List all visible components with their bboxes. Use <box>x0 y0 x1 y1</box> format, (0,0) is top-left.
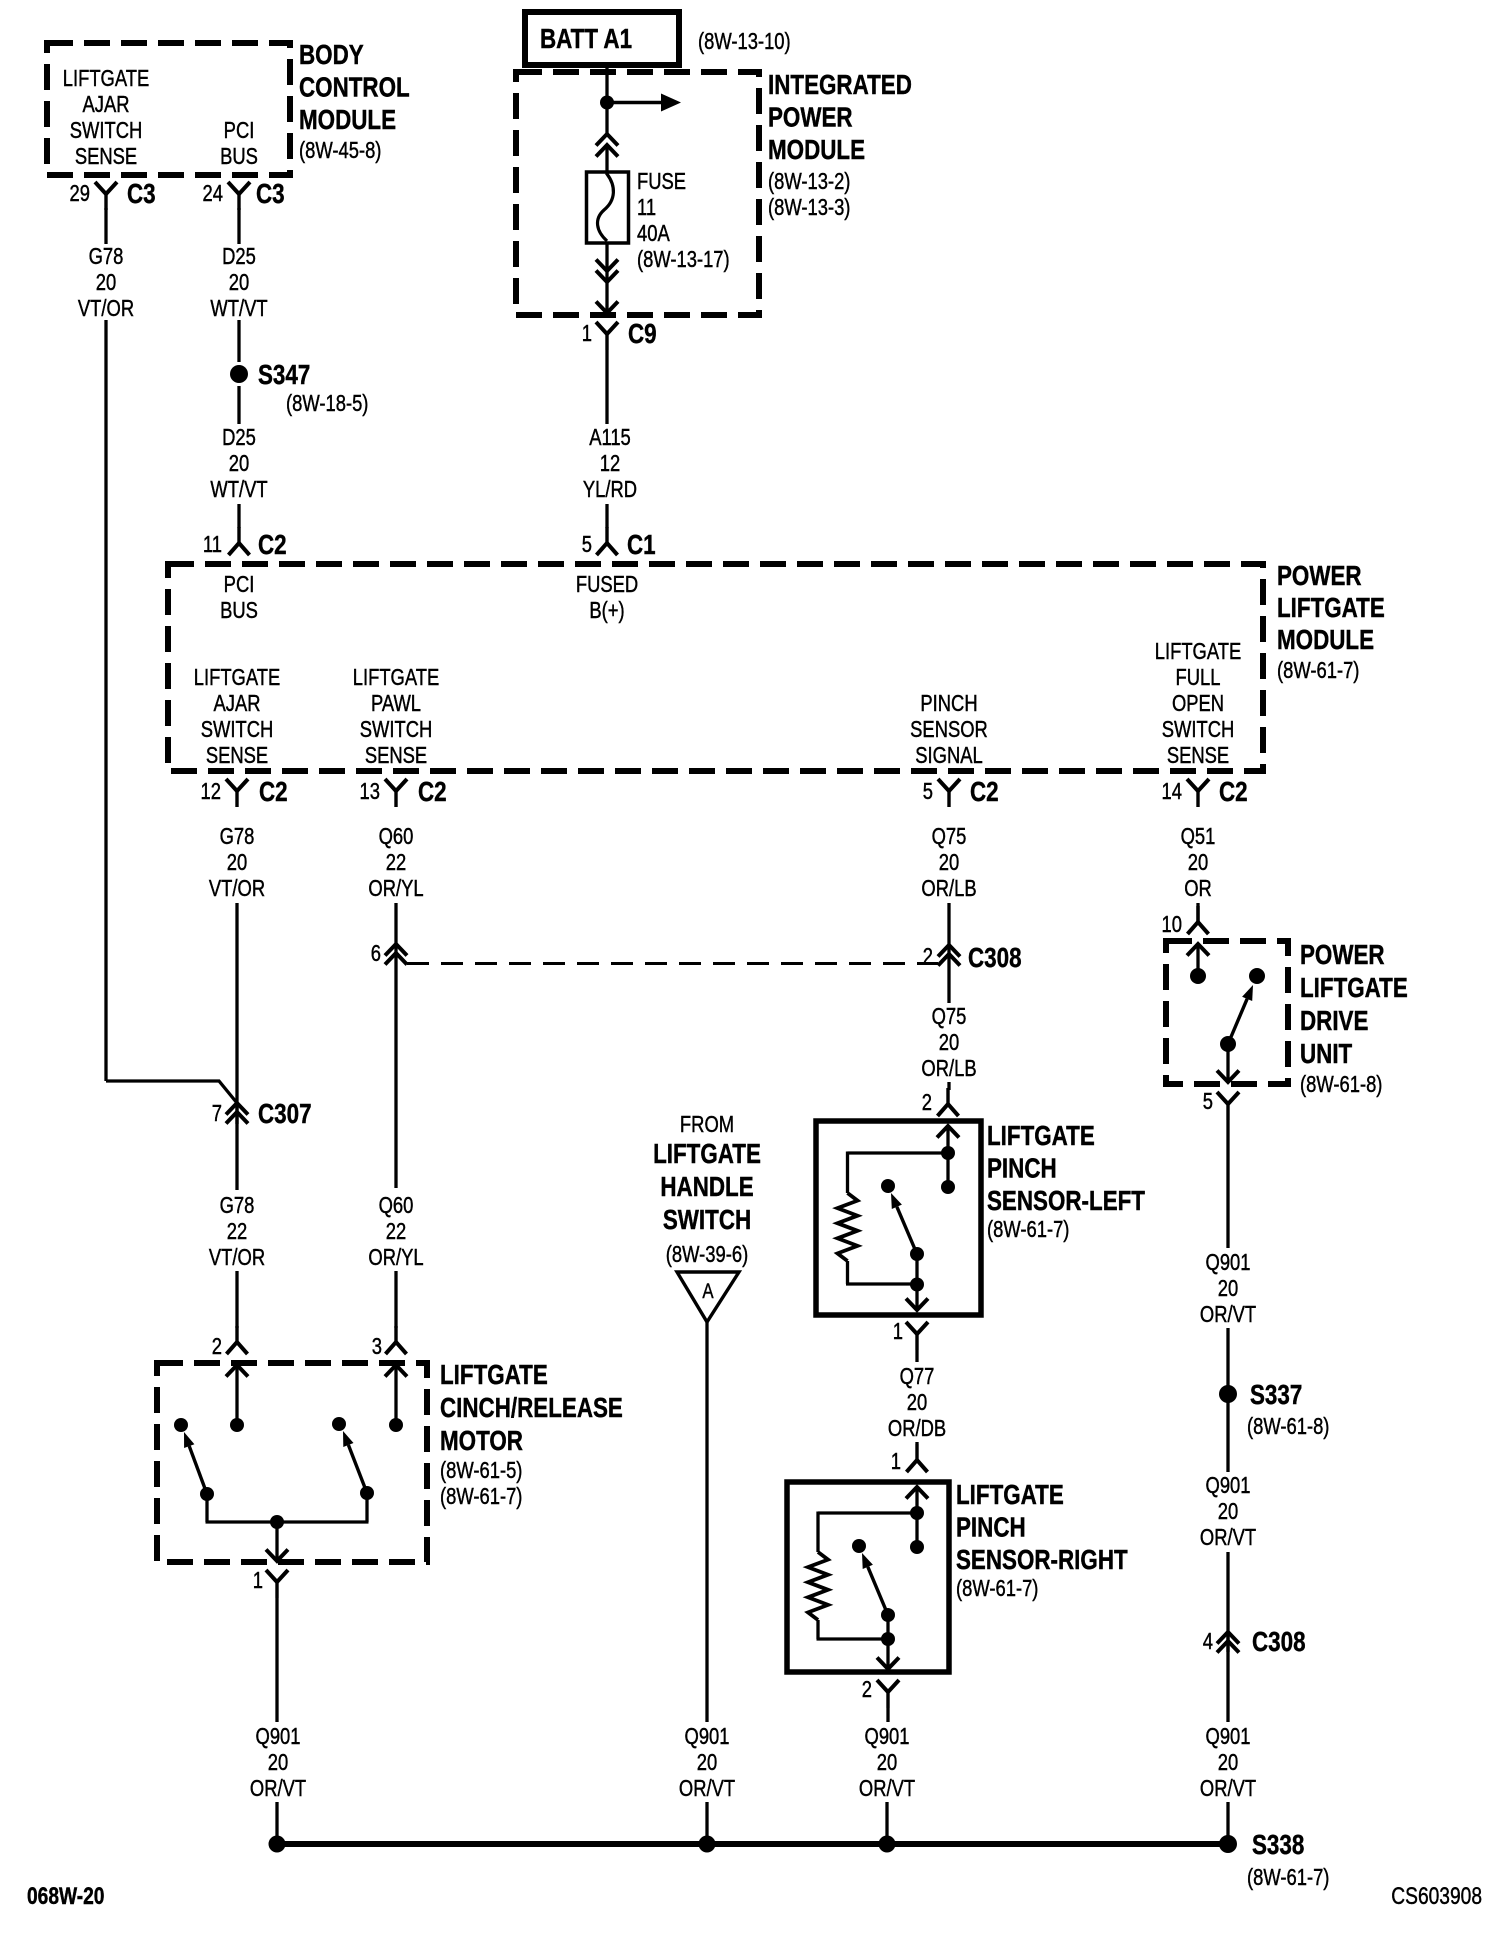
svg-text:20: 20 <box>939 1030 959 1055</box>
svg-text:LIFTGATE: LIFTGATE <box>63 66 149 91</box>
component box: LIFTGATE PINCH SENSOR-LEFT <box>816 1121 981 1315</box>
bus junction node (handle switch branch) <box>699 1836 716 1853</box>
wire Q60 22 OR/YL from PLM pin 13 <box>368 824 423 944</box>
switch input contact (drive unit) <box>1190 968 1206 984</box>
svg-text:SWITCH: SWITCH <box>70 118 143 143</box>
svg-text:OR/VT: OR/VT <box>859 1776 915 1801</box>
wire from chevrons to fuse <box>605 145 608 175</box>
svg-text:C2: C2 <box>259 777 288 808</box>
wire D25 20 WT/VT from S347 to PLM pin 11 <box>210 386 267 528</box>
svg-text:POWER: POWER <box>1277 561 1362 592</box>
inline connection chevrons below fuse <box>596 260 618 283</box>
svg-text:VT/OR: VT/OR <box>78 296 134 321</box>
motor internal output wiring <box>206 1493 369 1560</box>
connector pin 5 C1 (PLM top) <box>582 527 656 561</box>
svg-text:PCI: PCI <box>224 572 255 597</box>
svg-text:(8W-13-3): (8W-13-3) <box>768 195 850 220</box>
wire Q51 20 OR from PLM pin 14 <box>1181 824 1216 922</box>
svg-text:12: 12 <box>600 451 620 476</box>
svg-text:20: 20 <box>1188 850 1208 875</box>
svg-text:1: 1 <box>891 1449 901 1474</box>
svg-text:SIGNAL: SIGNAL <box>915 743 982 768</box>
svg-text:(8W-61-7): (8W-61-7) <box>987 1217 1069 1242</box>
wire G78 22 VT/OR from C307 to motor pin 2 <box>209 1103 265 1328</box>
switch throw contact (pinch right) <box>852 1539 866 1553</box>
wire from resistor to pinch-right output node <box>817 1620 889 1639</box>
svg-text:OR/VT: OR/VT <box>250 1776 306 1801</box>
svg-text:LIFTGATE: LIFTGATE <box>353 665 439 690</box>
svg-text:Q75: Q75 <box>932 1004 967 1029</box>
svg-text:B(+): B(+) <box>589 598 624 623</box>
svg-text:S347: S347 <box>258 360 310 391</box>
svg-text:20: 20 <box>877 1750 897 1775</box>
svg-text:OR/YL: OR/YL <box>368 876 423 901</box>
connector pin 3 (motor top) <box>372 1326 407 1360</box>
svg-text:(8W-39-6): (8W-39-6) <box>666 1242 748 1267</box>
svg-text:LIFTGATE: LIFTGATE <box>956 1480 1064 1511</box>
box-exit chevron (pinch sensor left) <box>906 1299 928 1311</box>
switch fixed contact (pinch left) <box>941 1153 955 1194</box>
svg-text:OR/LB: OR/LB <box>921 876 976 901</box>
box-exit chevron (drive unit) <box>1217 1071 1239 1083</box>
switch fixed contact (pinch right) <box>910 1513 924 1554</box>
svg-text:MOTOR: MOTOR <box>440 1426 523 1457</box>
connector pin 1 (pinch sensor right top) <box>891 1444 928 1475</box>
wire Q60 22 OR/YL from connector 6 to motor pin 3 <box>368 1193 423 1328</box>
svg-text:068W-20: 068W-20 <box>27 1882 104 1910</box>
label: PCI BUS (PLM internal) <box>220 572 258 623</box>
wire pivot to drive unit bottom edge <box>1226 1044 1229 1081</box>
wire Q901 20 OR/VT from motor to ground bus <box>250 1598 306 1844</box>
svg-text:MODULE: MODULE <box>768 135 865 166</box>
wire Q901 20 OR/VT from pinch right to ground bus <box>859 1708 915 1844</box>
svg-text:FROM: FROM <box>680 1112 734 1137</box>
wire D25 20 WT/VT from BCM pin 24 <box>210 208 267 362</box>
svg-text:OR/YL: OR/YL <box>368 1245 423 1270</box>
svg-text:OR/LB: OR/LB <box>921 1056 976 1081</box>
label: LIFTGATE PINCH SENSOR-LEFT (8W-61-7) <box>987 1121 1145 1243</box>
svg-text:SENSE: SENSE <box>75 144 137 169</box>
svg-text:Q901: Q901 <box>1206 1250 1251 1275</box>
switch throw contact (pinch left) <box>881 1179 895 1193</box>
svg-text:G78: G78 <box>220 1193 255 1218</box>
inline connector 7 C307 (on G78 wire) <box>212 1099 312 1130</box>
drawing code CS603908 <box>1391 1882 1482 1910</box>
svg-text:FULL: FULL <box>1176 665 1221 690</box>
wire to pinch-right resistor <box>818 1512 917 1553</box>
svg-text:11: 11 <box>637 195 656 220</box>
wire Q901 20 OR/VT from S337 to C308 <box>1200 1394 1256 1652</box>
svg-text:LIFTGATE: LIFTGATE <box>653 1139 761 1170</box>
svg-text:POWER: POWER <box>1300 940 1385 971</box>
svg-text:5: 5 <box>1203 1089 1213 1114</box>
svg-text:A115: A115 <box>589 425 631 450</box>
connector pin 14 C2 (PLM bottom) <box>1162 777 1248 808</box>
module box: INTEGRATED POWER MODULE <box>516 72 759 315</box>
connector pin 12 C2 (PLM bottom) <box>201 777 288 808</box>
svg-text:20: 20 <box>1218 1499 1238 1524</box>
svg-text:(8W-61-7): (8W-61-7) <box>956 1576 1038 1601</box>
svg-text:11: 11 <box>203 532 222 557</box>
wire G78 20 VT/OR from PLM pin 12 <box>209 824 265 1124</box>
svg-text:5: 5 <box>923 779 933 804</box>
svg-text:BUS: BUS <box>220 598 258 623</box>
svg-text:40A: 40A <box>637 221 670 246</box>
svg-text:1: 1 <box>893 1319 903 1344</box>
box-exit chevron (pinch sensor right) <box>877 1658 899 1670</box>
svg-text:PINCH: PINCH <box>956 1512 1026 1543</box>
wire Q75 20 OR/LB from C308 to pinch sensor left <box>921 945 976 1090</box>
svg-text:Q901: Q901 <box>1206 1724 1251 1749</box>
svg-text:UNIT: UNIT <box>1300 1039 1353 1070</box>
svg-text:LIFTGATE: LIFTGATE <box>194 665 280 690</box>
node: pinch-left top junction <box>941 1146 955 1160</box>
svg-text:4: 4 <box>1203 1629 1213 1654</box>
svg-text:22: 22 <box>227 1219 247 1244</box>
svg-text:LIFTGATE: LIFTGATE <box>1300 973 1408 1004</box>
svg-text:SENSE: SENSE <box>206 743 268 768</box>
svg-text:HANDLE: HANDLE <box>660 1172 753 1203</box>
off-page connector triangle A (liftgate handle switch) <box>677 1272 739 1322</box>
wire Q77 20 OR/DB from pinch left to pinch right <box>888 1350 946 1444</box>
power source box: BATT A1 <box>525 12 679 65</box>
bus junction node (motor branch) <box>269 1836 286 1853</box>
svg-text:OR: OR <box>1184 876 1212 901</box>
junction node in IPM with feed arrow to other circuits <box>600 94 681 112</box>
box-exit chevron at IPM bottom edge <box>596 302 618 314</box>
svg-text:20: 20 <box>229 451 249 476</box>
label: LIFTGATE AJAR SWITCH SENSE (PLM internal) <box>194 665 280 768</box>
svg-text:(8W-61-5): (8W-61-5) <box>440 1458 522 1483</box>
svg-text:5: 5 <box>582 532 592 557</box>
wire G78 20 VT/OR from BCM pin 29 <box>78 208 134 1081</box>
svg-text:C307: C307 <box>258 1099 312 1130</box>
ground bus wire to S338 <box>276 1841 1228 1847</box>
motor switch left: input contact <box>230 1418 244 1432</box>
svg-text:C308: C308 <box>1252 1627 1306 1658</box>
connector pin 2 (pinch sensor right bottom) <box>862 1677 899 1708</box>
svg-text:Q901: Q901 <box>685 1724 730 1749</box>
fuse FUSE 11 40A (8W-13-17) <box>587 169 730 272</box>
svg-text:C9: C9 <box>628 319 657 350</box>
svg-text:(8W-13-17): (8W-13-17) <box>637 247 730 272</box>
svg-text:2: 2 <box>923 944 933 969</box>
svg-text:(8W-61-8): (8W-61-8) <box>1247 1414 1329 1439</box>
wire Q75 20 OR/LB from PLM pin 5 <box>921 824 976 945</box>
svg-text:C3: C3 <box>256 179 285 210</box>
label: FUSED B(+) (PLM internal) <box>576 572 638 623</box>
svg-text:SENSE: SENSE <box>1167 743 1229 768</box>
svg-text:2: 2 <box>922 1090 932 1115</box>
label: LIFTGATE CINCH/RELEASE MOTOR (8W-61-5)(8W-61-7) <box>440 1360 623 1510</box>
svg-text:(8W-13-10): (8W-13-10) <box>698 29 791 54</box>
switch arm with arrow (pinch right) <box>862 1553 895 1622</box>
svg-text:7: 7 <box>212 1101 222 1126</box>
svg-text:14: 14 <box>1162 779 1182 804</box>
svg-text:OR/DB: OR/DB <box>888 1416 946 1441</box>
connector pin 1 (pinch sensor left bottom) <box>893 1319 928 1350</box>
svg-text:C1: C1 <box>627 530 656 561</box>
svg-text:C2: C2 <box>258 530 287 561</box>
splice S338 (8W-61-7) <box>1219 1830 1329 1891</box>
splice S337 (8W-61-8) <box>1219 1380 1329 1440</box>
svg-text:BUS: BUS <box>220 144 258 169</box>
inline connection chevrons above fuse <box>596 134 618 157</box>
inline connector 2 C308 (on Q75 wire) <box>923 943 1022 974</box>
switch arm with arrow (pinch left) <box>891 1193 924 1261</box>
connector pin 11 C2 (PLM top) <box>203 527 287 561</box>
svg-text:SENSOR-RIGHT: SENSOR-RIGHT <box>956 1545 1128 1576</box>
svg-text:C3: C3 <box>127 179 156 210</box>
svg-text:CS603908: CS603908 <box>1391 1882 1482 1910</box>
svg-text:OR/VT: OR/VT <box>679 1776 735 1801</box>
wire pivot to output node (pinch left) <box>910 1254 924 1310</box>
connector pin 2 (pinch sensor left top) <box>922 1088 959 1116</box>
resistor (pinch sensor left) <box>838 1193 858 1261</box>
svg-text:LIFTGATE: LIFTGATE <box>987 1121 1095 1152</box>
svg-text:OR/VT: OR/VT <box>1200 1525 1256 1550</box>
svg-text:Q901: Q901 <box>865 1724 910 1749</box>
switch arm with arrow (drive unit) <box>1220 985 1253 1052</box>
svg-text:(8W-13-2): (8W-13-2) <box>768 169 850 194</box>
connector pin 1 C9 (IPM) <box>582 319 657 350</box>
svg-text:A: A <box>702 1280 713 1303</box>
svg-text:20: 20 <box>939 850 959 875</box>
svg-text:1: 1 <box>582 321 592 346</box>
motor switch left: arm with arrow <box>184 1432 214 1501</box>
svg-text:G78: G78 <box>89 244 124 269</box>
wire Q901 20 OR/VT from drive unit to S337 <box>1200 1120 1256 1394</box>
label: LIFTGATE AJAR SWITCH SENSE (BCM internal) <box>63 66 149 169</box>
wire pivot to output node (pinch right) <box>881 1615 895 1668</box>
wire from resistor to pinch-left output node <box>846 1261 917 1284</box>
svg-text:SENSOR-LEFT: SENSOR-LEFT <box>987 1186 1145 1217</box>
svg-text:(8W-61-8): (8W-61-8) <box>1300 1072 1382 1097</box>
label: POWER LIFTGATE DRIVE UNIT (8W-61-8) <box>1300 940 1408 1098</box>
resistor (pinch sensor right) <box>808 1552 828 1620</box>
connector pin 5 C2 (PLM bottom) <box>923 777 999 808</box>
connector pin 1 (motor bottom) <box>253 1568 288 1598</box>
svg-text:OR/VT: OR/VT <box>1200 1776 1256 1801</box>
svg-text:S338: S338 <box>1252 1830 1304 1861</box>
svg-text:10: 10 <box>1162 912 1182 937</box>
label: PINCH SENSOR SIGNAL (PLM internal) <box>910 691 988 768</box>
svg-text:CINCH/RELEASE: CINCH/RELEASE <box>440 1393 623 1424</box>
svg-text:3: 3 <box>372 1334 382 1359</box>
svg-text:2: 2 <box>862 1677 872 1702</box>
label: FROM LIFTGATE HANDLE SWITCH (8W-39-6) <box>653 1112 761 1267</box>
label: POWER LIFTGATE MODULE (8W-61-7) <box>1277 561 1385 684</box>
svg-text:20: 20 <box>1218 1276 1238 1301</box>
connector pin 10 (drive unit top) <box>1162 906 1209 938</box>
svg-text:C2: C2 <box>970 777 999 808</box>
svg-text:D25: D25 <box>222 244 256 269</box>
svg-text:SWITCH: SWITCH <box>1162 717 1235 742</box>
svg-text:S337: S337 <box>1250 1380 1302 1411</box>
box-entry chevron (pinch sensor left) <box>937 1126 959 1153</box>
svg-text:Q77: Q77 <box>900 1364 935 1389</box>
splice S347 (8W-18-5) <box>230 360 368 417</box>
svg-text:Q901: Q901 <box>256 1724 301 1749</box>
svg-text:20: 20 <box>697 1750 717 1775</box>
svg-text:OPEN: OPEN <box>1172 691 1224 716</box>
box-entry chevron (motor pin 3) <box>385 1365 407 1425</box>
motor switch right: throw contact <box>332 1417 346 1431</box>
label: LIFTGATE PAWL SWITCH SENSE (PLM internal) <box>353 665 439 768</box>
svg-text:SENSOR: SENSOR <box>910 717 988 742</box>
label: INTEGRATED POWER MODULE (8W-13-2)(8W-13-3) <box>768 70 912 221</box>
svg-text:FUSED: FUSED <box>576 572 638 597</box>
svg-text:Q60: Q60 <box>379 1193 414 1218</box>
wire from BATT A1 into IPM <box>605 65 608 134</box>
wire to IPM box edge <box>605 282 608 313</box>
svg-text:22: 22 <box>386 850 406 875</box>
dashed link line from connector 6 to connector C308 <box>407 962 938 965</box>
svg-text:12: 12 <box>201 779 221 804</box>
svg-text:CONTROL: CONTROL <box>299 72 410 103</box>
svg-text:POWER: POWER <box>768 102 853 133</box>
svg-text:D25: D25 <box>222 425 256 450</box>
svg-text:Q75: Q75 <box>932 824 967 849</box>
inline connector 6 (on Q60 wire) <box>371 941 407 1188</box>
svg-text:Q60: Q60 <box>379 824 414 849</box>
label: LIFTGATE FULL OPEN SWITCH SENSE (PLM internal) <box>1155 639 1241 768</box>
motor switch right: arm with arrow <box>343 1431 374 1500</box>
svg-text:VT/OR: VT/OR <box>209 1245 265 1270</box>
svg-text:Q901: Q901 <box>1206 1473 1251 1498</box>
svg-text:(8W-61-7): (8W-61-7) <box>440 1484 522 1509</box>
svg-text:AJAR: AJAR <box>82 92 129 117</box>
module box: BODY CONTROL MODULE <box>47 43 290 175</box>
connector pin 5 (drive unit bottom) <box>1203 1089 1239 1120</box>
svg-text:(8W-18-5): (8W-18-5) <box>286 391 368 416</box>
connector pin 2 (motor top) <box>212 1326 248 1360</box>
svg-text:PINCH: PINCH <box>987 1153 1057 1184</box>
svg-text:C2: C2 <box>1219 777 1248 808</box>
label: (8W-13-10) <box>698 29 791 54</box>
svg-text:20: 20 <box>1218 1750 1238 1775</box>
connector pin 13 C2 (PLM bottom) <box>360 777 447 808</box>
svg-text:(8W-45-8): (8W-45-8) <box>299 138 381 163</box>
svg-text:LIFTGATE: LIFTGATE <box>1277 593 1385 624</box>
svg-text:20: 20 <box>227 850 247 875</box>
module box: POWER LIFTGATE MODULE <box>168 564 1263 771</box>
svg-text:20: 20 <box>268 1750 288 1775</box>
svg-text:1: 1 <box>253 1568 263 1593</box>
wire Q901 20 OR/VT from C308 to S338 <box>1200 1632 1256 1844</box>
svg-text:PINCH: PINCH <box>920 691 977 716</box>
svg-text:20: 20 <box>907 1390 927 1415</box>
svg-text:MODULE: MODULE <box>299 105 396 136</box>
inline connector 4 C308 (right column) <box>1203 1627 1306 1658</box>
connector pin 29 C3 (BCM) <box>70 179 156 210</box>
svg-text:PCI: PCI <box>224 118 255 143</box>
svg-text:LIFTGATE: LIFTGATE <box>1155 639 1241 664</box>
svg-text:FUSE: FUSE <box>637 169 686 194</box>
svg-text:AJAR: AJAR <box>213 691 260 716</box>
svg-text:MODULE: MODULE <box>1277 625 1374 656</box>
svg-text:(8W-61-7): (8W-61-7) <box>1277 658 1359 683</box>
motor switch left: throw contact <box>174 1418 188 1432</box>
motor switch right: input contact <box>389 1418 403 1432</box>
wire Q901 20 OR/VT from triangle A to ground bus <box>679 1322 735 1844</box>
svg-text:(8W-61-7): (8W-61-7) <box>1247 1865 1329 1890</box>
wire to pinch-left resistor <box>848 1152 949 1194</box>
svg-text:INTEGRATED: INTEGRATED <box>768 70 912 101</box>
module box: LIFTGATE CINCH/RELEASE MOTOR <box>157 1363 427 1562</box>
svg-text:C308: C308 <box>968 943 1022 974</box>
wire from fuse to IPM output pin <box>605 243 608 282</box>
box-exit chevron (motor) <box>266 1550 288 1562</box>
svg-text:BATT A1: BATT A1 <box>540 24 632 55</box>
svg-text:20: 20 <box>229 270 249 295</box>
svg-text:WT/VT: WT/VT <box>210 296 267 321</box>
label: BODY CONTROL MODULE (8W-45-8) <box>299 40 410 164</box>
bus junction node (pinch right branch) <box>879 1836 896 1853</box>
box-entry chevron (motor pin 2) <box>226 1365 248 1425</box>
box-entry chevron (pinch sensor right) <box>906 1487 928 1513</box>
svg-text:SWITCH: SWITCH <box>360 717 433 742</box>
sheet number 068W-20 <box>27 1882 104 1910</box>
svg-text:20: 20 <box>96 270 116 295</box>
svg-text:Q51: Q51 <box>1181 824 1216 849</box>
svg-text:29: 29 <box>70 181 90 206</box>
node: pinch-right top junction <box>910 1506 924 1520</box>
svg-text:G78: G78 <box>220 824 255 849</box>
svg-text:SWITCH: SWITCH <box>663 1205 751 1236</box>
svg-text:SWITCH: SWITCH <box>201 717 274 742</box>
svg-text:6: 6 <box>371 941 381 966</box>
component box: LIFTGATE PINCH SENSOR-RIGHT <box>787 1482 949 1672</box>
svg-text:SENSE: SENSE <box>365 743 427 768</box>
svg-text:VT/OR: VT/OR <box>209 876 265 901</box>
wire A115 12 YL/RD from IPM to PLM pin 5 <box>583 350 637 528</box>
svg-text:24: 24 <box>203 181 223 206</box>
svg-text:22: 22 <box>386 1219 406 1244</box>
wire from BCM pin29 joining C307 <box>106 1081 237 1103</box>
svg-text:WT/VT: WT/VT <box>210 477 267 502</box>
svg-text:2: 2 <box>212 1334 222 1359</box>
svg-text:C2: C2 <box>418 777 447 808</box>
svg-text:YL/RD: YL/RD <box>583 477 637 502</box>
label: PCI BUS (BCM internal) <box>220 118 258 169</box>
box-entry chevron (drive unit) <box>1187 944 1209 976</box>
label: LIFTGATE PINCH SENSOR-RIGHT (8W-61-7) <box>956 1480 1128 1602</box>
connector pin 24 C3 (BCM) <box>203 179 285 210</box>
svg-text:DRIVE: DRIVE <box>1300 1006 1368 1037</box>
svg-text:13: 13 <box>360 779 380 804</box>
svg-text:LIFTGATE: LIFTGATE <box>440 1360 548 1391</box>
svg-text:OR/VT: OR/VT <box>1200 1302 1256 1327</box>
svg-text:PAWL: PAWL <box>371 691 421 716</box>
switch throw contact (drive unit) <box>1249 968 1265 984</box>
module box: POWER LIFTGATE DRIVE UNIT <box>1166 941 1288 1084</box>
svg-text:BODY: BODY <box>299 40 364 71</box>
